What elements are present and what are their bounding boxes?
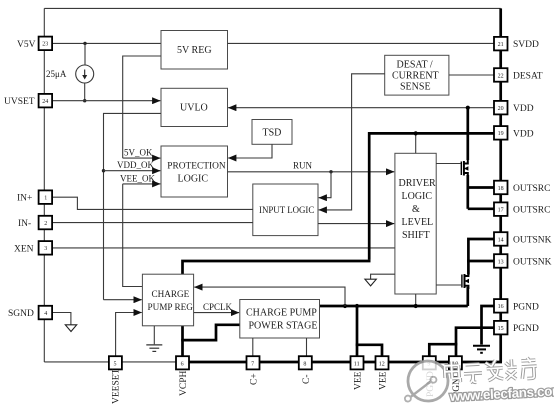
svg-text:5: 5 (114, 361, 117, 367)
pin 23 V5V (17, 37, 52, 51)
svg-text:UVSET: UVSET (4, 97, 35, 107)
svg-text:IN-: IN- (18, 219, 31, 229)
svg-text:21: 21 (498, 42, 504, 48)
thick wire PGND pin16 to ground (482, 306, 495, 345)
pin 4 SGND (8, 306, 52, 320)
svg-text:15: 15 (498, 326, 504, 332)
wire RUN branch into input logic (319, 172, 331, 198)
watermark elecfans logo (403, 360, 449, 402)
svg-text:&: & (412, 204, 420, 215)
svg-text:12: 12 (379, 361, 385, 367)
wire C+ stem (252, 338, 254, 356)
pin 1 IN+ (17, 190, 52, 204)
svg-text:VDD: VDD (513, 129, 534, 139)
pin 18 OUTSRC (494, 181, 550, 195)
svg-text:VDD: VDD (513, 104, 534, 114)
svg-text:www.elecfans.com: www.elecfans.com (448, 383, 554, 404)
thick wire lower MOSFET source to VEE rail (466, 287, 469, 306)
svg-text:OUTSNK: OUTSNK (513, 257, 552, 267)
svg-text:8: 8 (303, 361, 306, 367)
svg-text:OUTSRC: OUTSRC (513, 184, 550, 194)
svg-text:V5V: V5V (17, 40, 36, 50)
pin 13 OUTSNK (494, 254, 552, 268)
svg-text:C-: C- (302, 375, 312, 385)
node driver VDD feed (414, 131, 418, 135)
svg-text:XEN: XEN (14, 244, 34, 254)
svg-text:24: 24 (42, 99, 48, 105)
block DRIVER LOGIC & LEVEL SHIFT (395, 153, 436, 294)
wire driver VEE stem (415, 294, 417, 306)
wire CPCLK (194, 312, 240, 314)
thick wire charge pump reg to VCPH pin (181, 326, 184, 356)
svg-text:VEE: VEE (379, 371, 389, 390)
wire IN- to input logic (52, 222, 253, 224)
svg-text:16: 16 (498, 304, 504, 310)
block CHARGE PUMP REG (142, 274, 193, 326)
pin 5 VEESET (109, 356, 122, 404)
wire lower MOSFET gate (436, 284, 461, 286)
thick wire VEE pin12 stem (356, 345, 382, 356)
wire C- stem (306, 338, 308, 356)
pin 3 XEN (14, 241, 52, 255)
thick wire VDD pin20 down to source FET (466, 108, 469, 160)
svg-text:VCPH: VCPH (179, 371, 189, 396)
wire DESAT block to DESAT pin (449, 74, 494, 76)
chip outline left border (43, 8, 45, 362)
node on V5V rail (83, 42, 86, 45)
svg-text:2: 2 (44, 221, 47, 227)
svg-text:5V REG: 5V REG (177, 45, 212, 56)
svg-text:INPUT LOGIC: INPUT LOGIC (259, 205, 314, 215)
thick wire OUTSRC pin17 branch (468, 207, 494, 210)
pin 6 VCPH (176, 356, 189, 396)
pin 21 SVDD (494, 37, 539, 51)
wire VEESET into charge pump reg (116, 313, 142, 357)
svg-text:VEESET: VEESET (112, 368, 122, 404)
wire TSD to protection logic (228, 144, 272, 158)
svg-text:POWER STAGE: POWER STAGE (249, 321, 318, 332)
pin 19 VDD (494, 126, 534, 140)
svg-text:VEE_OK: VEE_OK (120, 173, 155, 183)
svg-text:SGND: SGND (8, 309, 34, 319)
thick wire VDD pin19 rail (369, 133, 494, 259)
pin 20 VDD (494, 101, 534, 115)
wire current source top stem (84, 43, 86, 65)
thick wire OUTSNK pin14 branch (468, 239, 494, 275)
watermark chinese text (444, 357, 537, 384)
svg-text:SVDD: SVDD (513, 40, 539, 50)
wire XEN to driver logic (52, 247, 395, 249)
svg-text:IN+: IN+ (17, 194, 32, 204)
svg-text:PGND: PGND (513, 324, 539, 334)
thick wire branch to charge pump power stage (181, 325, 240, 340)
pin 24 UVSET (4, 94, 52, 108)
chip outline right border (thick) (499, 8, 502, 362)
svg-text:LOGIC: LOGIC (178, 174, 209, 185)
pin 9 PGND (423, 356, 436, 397)
ground (signal) SGND (65, 325, 76, 332)
thick wire OUTSNK pin13 branch (467, 260, 494, 263)
thick wire PGND pin15 rail (456, 328, 494, 357)
pin 7 C+ (247, 356, 260, 385)
pin 17 OUTSRC (494, 202, 550, 216)
wire VEE_OK vertical to charge pump reg (123, 184, 143, 287)
thick wire OUTSRC pin18 branch (467, 186, 495, 189)
wire VDD sense into UVLO right (228, 107, 494, 109)
wire IN+ to input logic (52, 197, 253, 209)
wire input logic to driver logic (318, 223, 394, 225)
wire VDD_OK into charge pump reg (104, 299, 142, 301)
svg-text:VEE: VEE (354, 371, 364, 390)
block 5V REG (161, 31, 228, 70)
pin 12 VEE (376, 356, 389, 390)
thick wire VEE rail (318, 305, 468, 308)
svg-text:RUN: RUN (293, 160, 313, 170)
node VEE rail driver feed (414, 304, 418, 308)
transistor sink MOSFET (lower) (462, 274, 469, 290)
svg-text:SHIFT: SHIFT (402, 230, 430, 241)
svg-text:18: 18 (498, 186, 504, 192)
ground (signal) under driver (365, 279, 376, 286)
block CHARGE PUMP POWER STAGE (240, 300, 320, 339)
chip outline bottom border thin segment (44, 361, 176, 363)
node VEE rail charge pump feed (343, 304, 347, 308)
thick wire upper MOSFET source to OUTSRC pins (466, 175, 469, 209)
pin 16 PGND (494, 299, 539, 313)
svg-text:DESAT /: DESAT / (397, 60, 433, 71)
svg-text:4: 4 (44, 311, 47, 317)
wire VEE sense to charge pump reg (194, 287, 345, 306)
wire driver VDD stem (415, 133, 417, 153)
thick wire VEE pin11 stem (356, 306, 359, 356)
pin 22 DESAT (494, 68, 543, 82)
svg-text:6: 6 (181, 361, 184, 367)
svg-text:1: 1 (44, 196, 47, 202)
svg-text:SENSE: SENSE (400, 82, 431, 93)
wire RUN to driver logic (228, 171, 395, 173)
wire current source bottom stem (84, 83, 86, 101)
block DESAT / CURRENT SENSE (385, 55, 449, 95)
svg-text:22: 22 (498, 73, 504, 79)
svg-text:17: 17 (498, 208, 504, 214)
svg-text:5V_OK: 5V_OK (124, 148, 153, 158)
svg-text:PROTECTION: PROTECTION (167, 162, 226, 172)
svg-text:CHARGE PUMP: CHARGE PUMP (246, 308, 317, 319)
transistor source MOSFET (upper) (461, 159, 468, 177)
wire upper MOSFET gate (436, 163, 461, 165)
wire VDD_OK into protection logic (104, 170, 161, 172)
svg-text:C+: C+ (250, 373, 260, 385)
current source 25uA (76, 65, 94, 83)
pin 11 VEE (351, 356, 364, 390)
wire UVLO to VDD_OK vertical (104, 113, 162, 299)
pin 14 OUTSNK (494, 232, 552, 246)
chip outline top border (44, 7, 500, 9)
block UVLO (161, 88, 228, 126)
block PROTECTION LOGIC (161, 146, 228, 197)
svg-text:3: 3 (44, 246, 47, 252)
node VEE rail pin11 (355, 304, 359, 308)
svg-text:LEVEL: LEVEL (402, 217, 434, 228)
block TSD (252, 120, 292, 145)
svg-text:CURRENT: CURRENT (392, 71, 439, 82)
svg-text:PUMP REG: PUMP REG (148, 302, 194, 312)
svg-text:19: 19 (498, 131, 504, 137)
svg-text:13: 13 (498, 259, 504, 265)
wire charge pump reg ground stem (153, 326, 155, 345)
pin 8 C- (299, 356, 312, 384)
svg-text:VDD_OK: VDD_OK (117, 160, 154, 170)
node on UVSET rail (83, 99, 86, 102)
pin 10 PGND (449, 356, 462, 397)
wire VEE_OK into protection logic (123, 183, 161, 185)
wire DESAT block to input logic (319, 74, 385, 210)
wire V5V rail (52, 42, 161, 44)
block INPUT LOGIC (253, 184, 318, 236)
thick wire PGND pin9 branch (429, 344, 457, 356)
svg-text:PGND: PGND (513, 302, 539, 312)
svg-text:14: 14 (498, 237, 504, 243)
node on RUN line (329, 170, 332, 173)
wire UVSET to UVLO (52, 100, 160, 102)
ground (earth) under charge pump reg (146, 345, 162, 352)
wire driver signal ground (371, 274, 395, 279)
svg-text:DESAT: DESAT (513, 71, 543, 81)
svg-text:7: 7 (251, 361, 254, 367)
svg-text:TSD: TSD (263, 128, 282, 139)
svg-text:25μA: 25μA (46, 69, 67, 79)
thick wire VCPH rail (183, 261, 371, 274)
wire 5V_OK from 5V REG (123, 56, 161, 158)
svg-text:CHARGE: CHARGE (152, 289, 190, 299)
ground (power) near PGND (473, 346, 490, 353)
pin 2 IN- (18, 216, 52, 230)
svg-text:11: 11 (354, 361, 360, 367)
svg-text:LOGIC: LOGIC (402, 191, 433, 202)
chip outline bottom border thick segment (176, 361, 502, 364)
svg-text:23: 23 (42, 42, 48, 48)
svg-text:CPCLK: CPCLK (203, 302, 233, 312)
svg-text:OUTSNK: OUTSNK (513, 235, 552, 245)
wire 5V_OK into protection logic (123, 157, 161, 159)
node on VDD_OK line (102, 169, 105, 172)
node VDD pin20 line (466, 106, 470, 110)
svg-text:UVLO: UVLO (180, 103, 208, 114)
svg-text:OUTSRC: OUTSRC (513, 206, 550, 216)
svg-text:DRIVER: DRIVER (399, 178, 437, 189)
wire SGND to ground (52, 313, 71, 325)
pin 15 PGND (494, 321, 539, 335)
svg-text:20: 20 (498, 106, 504, 112)
wire 5V REG to SVDD (228, 42, 495, 44)
